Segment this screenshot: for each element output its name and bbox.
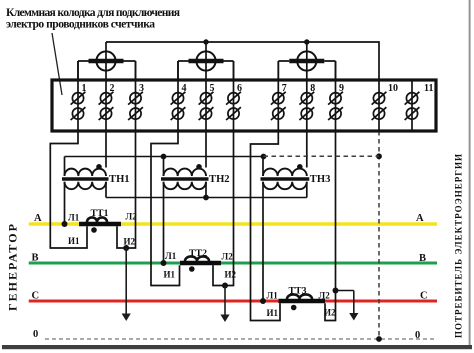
svg-text:8: 8 bbox=[310, 83, 315, 94]
ТТ2 secondary winding bumps bbox=[185, 256, 209, 261]
node: junction dot above terminal 5 bbox=[203, 39, 208, 44]
wire: terminal 9 to TT3 I2 bbox=[325, 61, 336, 321]
wire: jumper link coil W1 to terminal 3 bbox=[124, 61, 136, 80]
screenshot right border line bbox=[469, 0, 471, 345]
wire: ТН2 secondary left end to phase line bbox=[163, 182, 165, 263]
svg-text:В: В bbox=[32, 253, 39, 264]
wire: jumper link terminal 4 to coil W2 bbox=[178, 61, 189, 80]
svg-text:Л1: Л1 bbox=[68, 213, 80, 223]
node: ТН3 tap junction dot on phase line bbox=[260, 298, 266, 304]
voltage transformer ТН1 primary winding bbox=[65, 169, 106, 176]
svg-text:1: 1 bbox=[82, 83, 87, 94]
svg-text:ТТ3: ТТ3 bbox=[289, 286, 307, 297]
ТТ2 polarity dot bbox=[189, 266, 195, 272]
ТН2 primary left end riser bbox=[163, 157, 165, 177]
screenshot bottom border bar bbox=[2, 345, 472, 349]
terminal 6 screw contacts bbox=[226, 92, 241, 120]
wire: jumper link terminal 7 to coil W3 bbox=[278, 61, 289, 80]
svg-text:электро проводников счетчика: электро проводников счетчика bbox=[6, 18, 155, 31]
ground arrow from TT2 secondary bbox=[224, 286, 226, 317]
terminal 5 screw contacts bbox=[199, 92, 214, 120]
wire: terminal 10 inner conductor bbox=[378, 80, 380, 131]
phase line A (yellow) bbox=[29, 222, 437, 226]
ТН1 core bbox=[62, 177, 109, 180]
terminal 1 screw contacts bbox=[71, 92, 86, 120]
node: TT3 ground tap dot on terminal 9 wire bbox=[333, 288, 339, 294]
ТТ1 secondary winding bumps bbox=[87, 217, 107, 222]
ТТ3 polarity dot bbox=[291, 305, 297, 311]
svg-text:2: 2 bbox=[110, 83, 115, 94]
ТН1 primary left end riser bbox=[64, 157, 66, 177]
svg-text:Л2: Л2 bbox=[319, 290, 331, 300]
wire: terminal 5 to TN2 primary bbox=[205, 42, 207, 168]
node: ТН2 tap junction dot on phase line bbox=[161, 260, 167, 266]
svg-text:ТТ2: ТТ2 bbox=[189, 248, 207, 259]
wire: VT secondary bus bbox=[106, 197, 307, 199]
svg-text:4: 4 bbox=[182, 83, 187, 94]
ТН1 polarity dot bbox=[96, 164, 102, 170]
svg-text:Л1: Л1 bbox=[267, 290, 279, 300]
wire: ТН1 secondary left end to phase line bbox=[64, 182, 66, 224]
node: ТН1 tap junction dot on phase line bbox=[62, 221, 68, 227]
meter current coil W3 (circle) bbox=[297, 51, 316, 70]
node: junction dot TN3 tap on bus bbox=[261, 154, 267, 160]
svg-text:ГЕНЕРАТОР: ГЕНЕРАТОР bbox=[6, 224, 20, 311]
terminal 4 screw contacts bbox=[171, 92, 186, 120]
neutral line 0 (dashed) bbox=[45, 338, 437, 340]
wire: top voltage bus bbox=[106, 42, 379, 80]
svg-text:А: А bbox=[416, 213, 424, 224]
terminal 3 screw contacts bbox=[128, 92, 143, 120]
svg-text:0: 0 bbox=[33, 329, 38, 340]
svg-text:10: 10 bbox=[388, 83, 398, 94]
node: junction dot TN2 secondary on bus bbox=[203, 195, 209, 201]
wire: ТН3 secondary left end to phase line bbox=[262, 182, 264, 301]
terminal 2 screw contacts bbox=[99, 92, 114, 120]
svg-text:Л2: Л2 bbox=[126, 211, 138, 221]
svg-text:И1: И1 bbox=[68, 236, 80, 246]
svg-text:0: 0 bbox=[415, 330, 420, 341]
annotation leader line bbox=[52, 33, 62, 95]
svg-text:5: 5 bbox=[210, 83, 215, 94]
node: dashed bus junction at terminal 10 drop bbox=[376, 153, 382, 159]
wire: terminal 7 to TT3 I1 bbox=[251, 61, 281, 321]
terminal block (klemmnaya kolodka) bbox=[52, 80, 436, 131]
svg-text:7: 7 bbox=[282, 83, 287, 94]
svg-text:6: 6 bbox=[237, 83, 242, 94]
svg-text:А: А bbox=[34, 213, 42, 224]
svg-text:ТН2: ТН2 bbox=[209, 174, 230, 185]
svg-text:И1: И1 bbox=[267, 308, 279, 318]
current transformer ТТ1 primary bar bbox=[79, 222, 121, 226]
svg-text:ТН3: ТН3 bbox=[310, 174, 331, 185]
wire: ТН3 secondary right end to bus bbox=[306, 182, 308, 198]
meter current coil W1 bar bbox=[89, 59, 124, 63]
svg-text:С: С bbox=[420, 291, 428, 302]
ТТ1 polarity dot bbox=[91, 227, 97, 233]
current transformer ТТ3 primary bar bbox=[279, 299, 326, 303]
terminal 7 screw contacts bbox=[271, 92, 286, 120]
wire: terminal 3 to TT1 I2 bbox=[117, 61, 136, 248]
meter current coil W1 (circle) bbox=[96, 51, 115, 70]
ТН2 core bbox=[161, 177, 209, 180]
node: TT1 I2 ground junction dot bbox=[123, 245, 129, 251]
node: junction dot above terminal 8 bbox=[304, 39, 309, 44]
wire: ТН1 secondary right end to bus bbox=[105, 182, 107, 198]
ТН1 secondary winding bbox=[65, 182, 106, 189]
phase line C (red) bbox=[29, 300, 437, 303]
voltage transformer ТН2 primary winding bbox=[164, 169, 207, 176]
wire: terminal 2 to TN1 primary bbox=[105, 42, 107, 168]
svg-text:ТТ1: ТТ1 bbox=[91, 208, 109, 219]
terminal 9 screw contacts bbox=[328, 92, 343, 120]
ТН3 primary left end riser bbox=[262, 157, 264, 177]
svg-text:3: 3 bbox=[139, 83, 144, 94]
svg-text:И2: И2 bbox=[225, 270, 237, 280]
wire: jumper link coil W2 to terminal 6 bbox=[224, 61, 234, 80]
wire: dashed continuation of bus to neutral drop bbox=[264, 155, 380, 157]
wire: terminal 6 to TT2 I2 bbox=[213, 61, 234, 286]
terminal 11 screw contacts bbox=[405, 92, 420, 120]
svg-text:ПОТРЕБИТЕЛЬ ЭЛЕКТРОЭНЕРГИИ: ПОТРЕБИТЕЛЬ ЭЛЕКТРОЭНЕРГИИ bbox=[454, 154, 464, 338]
meter current coil W3 bar bbox=[289, 59, 324, 63]
wire: jumper link terminal 1 to coil W1 bbox=[78, 61, 89, 80]
meter current coil W2 (circle) bbox=[196, 51, 215, 70]
svg-text:И2: И2 bbox=[124, 237, 136, 247]
ТН3 core bbox=[261, 177, 310, 180]
current transformer ТТ2 primary bar bbox=[180, 261, 221, 265]
wire: TT3 ground tap bbox=[336, 290, 354, 292]
ground arrow from TT3 secondary bbox=[353, 291, 355, 315]
svg-text:И2: И2 bbox=[324, 308, 336, 318]
ground arrow from TT1 secondary bbox=[125, 248, 127, 315]
svg-text:С: С bbox=[32, 291, 40, 302]
wire: terminal 4 to TT2 I1 bbox=[151, 61, 180, 286]
terminal 8 screw contacts bbox=[299, 92, 314, 120]
wire: VT primary common bus (solid part) bbox=[65, 156, 266, 158]
svg-text:Л1: Л1 bbox=[165, 251, 177, 261]
wire: jumper link coil W3 to terminal 9 bbox=[324, 61, 335, 80]
node: TT2 I2 ground junction dot bbox=[222, 283, 228, 289]
wire: terminal 1 to TT1 I1 bbox=[50, 61, 87, 248]
svg-text:9: 9 bbox=[339, 83, 344, 94]
ТТ3 secondary winding bumps bbox=[287, 294, 312, 299]
svg-text:В: В bbox=[419, 253, 426, 264]
ТН3 secondary winding bbox=[263, 182, 307, 189]
ТН2 secondary winding bbox=[164, 182, 207, 189]
wire: terminal 11 stub bbox=[411, 80, 413, 131]
ТН3 polarity dot bbox=[297, 164, 303, 170]
terminal 10 screw contacts bbox=[372, 92, 387, 120]
wire: ТН2 secondary right end to bus bbox=[205, 182, 207, 198]
phase line B (green) bbox=[29, 262, 437, 265]
svg-text:ТН1: ТН1 bbox=[109, 174, 130, 185]
svg-text:11: 11 bbox=[424, 83, 433, 94]
ТН2 polarity dot bbox=[196, 164, 202, 170]
wire: terminal 8 to TN3 primary bbox=[306, 42, 308, 168]
svg-text:И1: И1 bbox=[164, 270, 176, 280]
voltage transformer ТН3 primary winding bbox=[263, 169, 307, 176]
meter current coil W2 bar bbox=[189, 59, 224, 63]
wire: dashed neutral drop from terminal 10 bbox=[378, 131, 380, 339]
svg-text:Л2: Л2 bbox=[222, 252, 234, 262]
node: junction dot on neutral line bbox=[376, 336, 382, 342]
node: junction dot TN2 tap on bus bbox=[161, 154, 167, 160]
